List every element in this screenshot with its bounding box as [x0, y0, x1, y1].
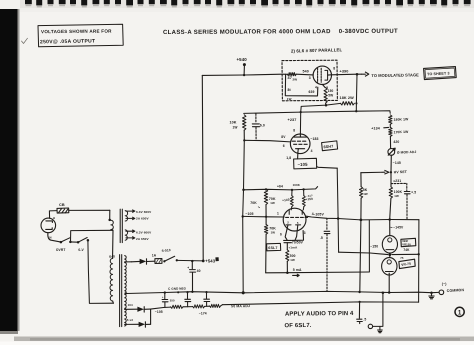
tube 6SH7 grid dashes — [292, 140, 306, 142]
common terminal — [439, 290, 444, 295]
svg-text:+64: +64 — [277, 184, 283, 188]
tube VR1 anode dot — [388, 238, 392, 242]
svg-text:CLASS-A SERIES MODULATOR FOR 4: CLASS-A SERIES MODULATOR FOR 4000 OHM LO… — [163, 29, 398, 36]
label +543 terminal — [202, 260, 205, 263]
heater secondary 1 — [125, 211, 127, 221]
capacitor filter a — [164, 293, 166, 299]
stray checkmark — [22, 38, 28, 43]
svg-text:3: 3 — [304, 231, 306, 235]
resistor 100K 1W — [389, 187, 392, 199]
svg-text:70K: 70K — [250, 201, 257, 205]
tube 6L6 internal grids — [317, 68, 319, 82]
wire: 6L6 plate to modulated stage — [331, 73, 361, 76]
svg-text:1W: 1W — [271, 231, 276, 235]
wire: left bias vertical — [243, 140, 245, 292]
svg-text:3: 3 — [309, 76, 311, 80]
tube 6SL7 plates — [288, 210, 290, 214]
heater primary coil — [109, 210, 111, 220]
svg-text:CB: CB — [59, 203, 65, 207]
wire: -105 row — [244, 187, 318, 190]
wire: 6SH7 grid — [244, 140, 290, 142]
svg-text:5W: 5W — [328, 94, 333, 98]
wire: +540 rail top horizontal — [202, 74, 282, 75]
svg-text:+540: +540 — [237, 57, 248, 62]
svg-text:1W: 1W — [287, 97, 292, 101]
wire: bias column to ground bus — [360, 220, 361, 292]
svg-text:TO MODULATED STAGE: TO MODULATED STAGE — [371, 72, 419, 78]
wire: bias tap — [125, 308, 138, 310]
svg-text:420: 420 — [393, 140, 399, 144]
resistor plate squiggle right — [302, 196, 305, 207]
svg-text:8V: 8V — [281, 135, 286, 139]
cathode lead 6L6 — [322, 84, 325, 87]
svg-text:−11?: −11? — [306, 194, 313, 198]
fuse box — [155, 259, 162, 264]
svg-text:.5: .5 — [363, 318, 366, 322]
resistor 18K 2W — [341, 102, 355, 105]
wire: cathode into bias label — [297, 152, 299, 159]
tube VR1 envelope — [382, 236, 397, 253]
wire: 18K to screen feed — [355, 103, 357, 111]
svg-text:−150: −150 — [370, 245, 378, 249]
svg-text:−105: −105 — [155, 310, 163, 314]
screen resistor loop — [285, 74, 318, 96]
resistor filter c — [205, 305, 210, 307]
wire: HV set arrow — [361, 171, 385, 174]
wire: ground bus — [126, 291, 439, 293]
tube 6SH7 plate bar — [294, 136, 307, 138]
capacitor .5 dotted drop — [326, 218, 328, 230]
svg-text:−183: −183 — [310, 137, 318, 141]
wire: 6SL7 grid1 — [243, 215, 285, 218]
6SL7 type box — [267, 243, 281, 250]
svg-text:6: 6 — [280, 232, 282, 236]
capacitor 6.0 dashed — [255, 114, 257, 123]
wire: bias tap join — [150, 309, 152, 324]
capacitor .5 to ground bottom — [358, 302, 360, 318]
svg-text:1: 1 — [458, 309, 462, 316]
svg-text:+134: +134 — [371, 126, 380, 130]
resistor filter b — [183, 306, 193, 308]
svg-text:2A 650V: 2A 650V — [136, 217, 149, 221]
wire: grid2 -105V row — [306, 216, 419, 220]
diode bias 2 — [139, 322, 146, 327]
main transformer core — [119, 255, 121, 327]
wire: bias tap 2 — [125, 323, 139, 325]
wire: plug bottom to switch — [48, 233, 61, 242]
svg-text:8: 8 — [333, 66, 335, 70]
svg-text:OVRT: OVRT — [56, 248, 66, 252]
svg-text:1W: 1W — [233, 126, 238, 130]
svg-text:VR150: VR150 — [402, 243, 411, 247]
resistor 5K 1W — [360, 198, 362, 220]
VR1 type box — [401, 238, 416, 246]
capacitor filter c — [206, 292, 208, 298]
svg-text:1W: 1W — [394, 194, 399, 198]
svg-text:−145V: −145V — [393, 225, 404, 229]
diode HV — [140, 259, 147, 264]
svg-text:180K 1W: 180K 1W — [393, 117, 409, 122]
potentiometer mod adj — [388, 149, 395, 156]
svg-text:47: 47 — [288, 76, 292, 80]
svg-text:6SL7: 6SL7 — [268, 246, 277, 250]
bus junction dots — [124, 292, 126, 294]
main secondary winding — [125, 256, 127, 326]
wire: switch1 up to primary row — [71, 230, 113, 242]
wire: pin3 loop — [292, 231, 304, 241]
tube VR2 anode dot — [387, 260, 391, 264]
svg-text:↘: ↘ — [258, 205, 261, 209]
svg-text:HV SET: HV SET — [394, 170, 408, 174]
svg-text:8: 8 — [293, 129, 295, 133]
svg-text:10K: 10K — [230, 120, 237, 124]
resistor filter a — [163, 306, 170, 308]
heater secondary 2 — [125, 230, 127, 240]
svg-text:−174: −174 — [199, 312, 207, 316]
svg-text:100K: 100K — [394, 190, 403, 194]
svg-text:VOLTAGES SHOWN ARE FOR: VOLTAGES SHOWN ARE FOR — [41, 29, 112, 35]
svg-text:75: 75 — [400, 256, 404, 260]
svg-text:1W: 1W — [290, 258, 295, 262]
svg-text:4: 4 — [311, 149, 313, 153]
resistor 180K 1W — [389, 115, 392, 125]
wire: switch link — [70, 241, 78, 243]
switch S510 — [163, 260, 165, 262]
spiral binding holes — [25, 0, 471, 7]
tube 6SL7 cathodes — [286, 224, 291, 226]
svg-text:6.3V 600V: 6.3V 600V — [136, 230, 152, 234]
wire: cathode return row — [266, 271, 369, 274]
wire: HV tap — [125, 261, 132, 263]
svg-text:H: H — [53, 216, 55, 220]
svg-text:(−): (−) — [442, 282, 447, 286]
resistor 150 5W cathode — [324, 88, 327, 104]
tube 6SH7 envelope — [290, 134, 310, 154]
svg-text:0B2/: 0B2/ — [402, 239, 408, 243]
tube VR2 envelope — [382, 258, 397, 275]
svg-text:−105V: −105V — [313, 213, 324, 217]
main primary coil — [110, 258, 113, 301]
page number circle 1 — [455, 307, 464, 316]
svg-text:100K: 100K — [293, 183, 301, 187]
tube 6SL7 envelope — [283, 208, 306, 231]
svg-text:Ø MOD ADJ: Ø MOD ADJ — [397, 150, 417, 155]
tube VR1 cathode — [386, 249, 394, 251]
tube 6SL7 grids — [286, 216, 308, 218]
tube 6L6 envelope — [313, 66, 331, 84]
svg-text:1,8: 1,8 — [286, 156, 291, 160]
svg-text:2W: 2W — [293, 78, 298, 82]
svg-text:0-V: 0-V — [78, 248, 84, 252]
+540 supply terminal — [243, 63, 246, 66]
svg-text:6.3V 600V: 6.3V 600V — [136, 210, 152, 214]
svg-text:1W: 1W — [363, 192, 368, 196]
ground symbol at bus — [431, 293, 433, 295]
wire: vr mid to right edge — [392, 253, 419, 255]
arrow to modulated stage — [361, 72, 369, 77]
svg-text:+237: +237 — [288, 118, 297, 122]
svg-text:1W: 1W — [270, 201, 275, 205]
svg-text:6SH7: 6SH7 — [323, 145, 333, 150]
svg-text:640: 640 — [109, 254, 115, 258]
VR2 type box — [399, 259, 415, 268]
svg-text:5 mA: 5 mA — [293, 268, 302, 272]
svg-text:+140: +140 — [282, 198, 290, 203]
svg-text:−105: −105 — [297, 162, 308, 167]
resistor 10K 1W — [243, 115, 246, 130]
wire: vr box right edge — [418, 220, 420, 303]
switch pole 2 — [77, 241, 80, 244]
6SH7 type box — [322, 141, 338, 151]
svg-text:104: 104 — [128, 303, 133, 307]
top binding shadow strip — [20, 0, 474, 10]
wire: vr box left edge — [368, 220, 370, 272]
wire: 6SL7 cathode leads — [285, 225, 288, 240]
wire: plug to CB to transformer — [49, 211, 57, 219]
svg-text:70/50V: 70/50V — [292, 240, 304, 244]
dashed enclosure around 6L6 tubes — [282, 60, 337, 101]
svg-text:639: 639 — [309, 90, 315, 94]
wire: divider mid — [389, 136, 391, 148]
wire: bias box to -105 rail — [317, 167, 338, 169]
left page-edge black band — [0, 0, 20, 9]
voltages note box — [38, 24, 123, 47]
wire: pot to hv node — [390, 155, 392, 186]
svg-text:6: 6 — [283, 144, 285, 148]
svg-text:1A: 1A — [152, 253, 157, 257]
resistor 170K 1W — [389, 124, 391, 127]
bias -105 label box — [294, 158, 317, 169]
switch pole 1 — [60, 241, 63, 244]
tube 6SH7 cathode — [296, 148, 305, 150]
svg-text:APPLY AUDIO TO PIN 4: APPLY AUDIO TO PIN 4 — [285, 311, 354, 318]
bottom page-edge shadow band — [14, 337, 474, 342]
wire: screen feed long horizontal — [244, 111, 391, 114]
svg-text:18K 2W: 18K 2W — [340, 96, 355, 100]
wire: switch2 down to primary bottom — [88, 240, 114, 303]
svg-text:6 x3: 6 x3 — [127, 318, 133, 322]
capacitor 70/50V — [284, 239, 291, 241]
circuit breaker box — [57, 208, 69, 213]
resistor 70K upper — [264, 189, 267, 204]
wire: -150 row into stack — [339, 252, 388, 254]
wire: vr2 to ground bus — [388, 273, 390, 292]
wire: 6SH7 plate vertical — [299, 112, 301, 134]
svg-text:6.0: 6.0 — [260, 123, 265, 127]
wire: divider into vr1 — [389, 220, 391, 236]
svg-text:=231: =231 — [393, 179, 401, 183]
svg-text:OF 6SL7.: OF 6SL7. — [284, 323, 311, 329]
capacitor filter b — [187, 292, 189, 298]
svg-text:40: 40 — [197, 269, 201, 273]
tube 6L6 plate — [325, 70, 328, 80]
resistor 47 ohm grid — [282, 73, 287, 75]
svg-text:170K 1W: 170K 1W — [393, 130, 409, 135]
svg-text:C GND NEG: C GND NEG — [168, 286, 187, 290]
svg-text:−105: −105 — [245, 212, 253, 216]
resistor 70K lower — [264, 224, 267, 234]
heater transformer core — [119, 209, 121, 242]
svg-text:+543: +543 — [205, 258, 215, 263]
svg-text:+: + — [187, 266, 189, 270]
resistor 500 cathode — [286, 250, 289, 262]
svg-text:250V@ .05A OUTPUT: 250V@ .05A OUTPUT — [40, 38, 95, 45]
ground symbol audio — [379, 326, 381, 329]
wire: cathode bus — [301, 103, 341, 112]
audio input terminal — [368, 324, 372, 328]
wire: between VR tubes — [389, 253, 391, 258]
svg-text:1: 1 — [277, 211, 279, 215]
svg-text:+1mA: +1mA — [288, 246, 298, 250]
svg-text:74K: 74K — [403, 248, 410, 252]
to sheet 3 box — [424, 67, 457, 80]
diode bias 1 — [137, 307, 144, 312]
svg-text:540: 540 — [303, 70, 309, 74]
svg-text:2A 650V: 2A 650V — [136, 237, 149, 241]
wire: -105 rail vertical — [337, 168, 338, 252]
ac plug — [41, 218, 56, 233]
svg-text:4: 4 — [315, 86, 317, 90]
svg-text:+: + — [162, 295, 164, 299]
wire: plate drop vertical — [355, 74, 358, 103]
svg-text:=.5: =.5 — [411, 191, 416, 195]
svg-text:+390: +390 — [340, 69, 349, 73]
wire: left rail vertical — [201, 75, 204, 260]
tube VR2 cathode — [385, 271, 393, 273]
svg-text:550: 550 — [170, 298, 175, 302]
resistor plate squiggle left — [290, 196, 293, 207]
wire: negative rail long — [222, 302, 418, 305]
capacitor 40 filter — [191, 260, 193, 262]
svg-text:150: 150 — [328, 89, 334, 93]
svg-text:50 MA ADJ: 50 MA ADJ — [231, 304, 250, 308]
svg-text:.5: .5 — [320, 236, 323, 240]
capacitor .5 divider dashed — [391, 182, 407, 184]
svg-text:−145: −145 — [393, 161, 401, 165]
